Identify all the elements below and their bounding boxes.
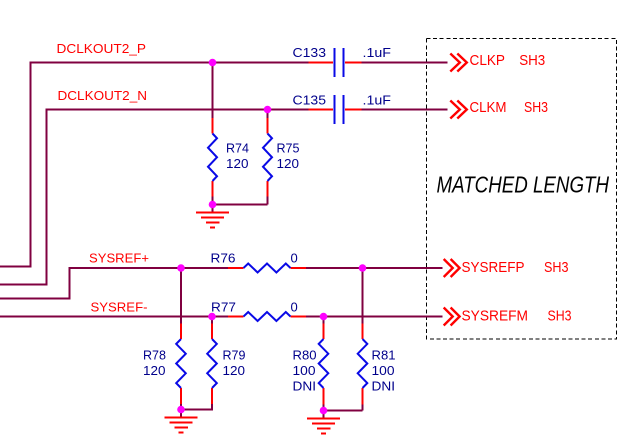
svg-text:100: 100 — [372, 363, 395, 378]
svg-text:DCLKOUT2_N: DCLKOUT2_N — [58, 89, 148, 103]
svg-text:R78: R78 — [143, 348, 166, 363]
svg-text:SYSREF+: SYSREF+ — [89, 252, 149, 266]
svg-text:R75: R75 — [277, 141, 300, 156]
svg-text:.1uF: .1uF — [363, 45, 392, 60]
svg-text:120: 120 — [223, 363, 246, 378]
svg-text:120: 120 — [226, 156, 249, 171]
svg-text:SYSREF-: SYSREF- — [91, 301, 148, 315]
svg-text:SYSREFP: SYSREFP — [462, 259, 525, 276]
svg-text:120: 120 — [277, 156, 300, 171]
svg-text:0: 0 — [291, 300, 298, 315]
svg-text:SYSREFM: SYSREFM — [462, 307, 529, 324]
svg-text:R80: R80 — [293, 348, 317, 363]
svg-text:.1uF: .1uF — [363, 93, 392, 108]
svg-text:SH3: SH3 — [548, 307, 572, 324]
svg-text:R76: R76 — [211, 251, 236, 266]
svg-text:C135: C135 — [293, 93, 327, 108]
svg-text:R79: R79 — [223, 348, 246, 363]
svg-text:R77: R77 — [211, 300, 236, 315]
svg-text:DNI: DNI — [293, 379, 317, 394]
svg-text:SH3: SH3 — [544, 259, 569, 276]
svg-text:0: 0 — [291, 251, 298, 266]
svg-text:MATCHED LENGTH: MATCHED LENGTH — [437, 172, 610, 198]
svg-text:CLKM: CLKM — [470, 99, 507, 116]
svg-text:SH3: SH3 — [524, 99, 548, 116]
svg-text:120: 120 — [143, 363, 166, 378]
svg-text:SH3: SH3 — [519, 52, 545, 69]
svg-text:R81: R81 — [372, 348, 396, 363]
svg-text:R74: R74 — [226, 141, 249, 156]
svg-text:100: 100 — [293, 363, 316, 378]
svg-text:DCLKOUT2_P: DCLKOUT2_P — [57, 42, 147, 56]
svg-text:DNI: DNI — [372, 379, 396, 394]
svg-text:C133: C133 — [293, 45, 327, 60]
svg-text:CLKP: CLKP — [470, 52, 506, 69]
